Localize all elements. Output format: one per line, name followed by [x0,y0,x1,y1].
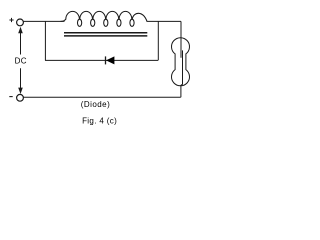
DC label [15,56,27,65]
svg-text:(Diode): (Diode) [81,100,110,109]
wire from coil to lamp branch [147,20,182,22]
inductor L1 coil loops [61,11,148,26]
lamp bottom electrode / wire to bottom [181,50,183,97]
svg-text:DC: DC [15,56,27,65]
terminal plus (+) [9,18,13,22]
lamp top electrode / wire from top [180,21,182,57]
wire bottom [24,96,181,98]
terminal circle bottom-left [17,94,24,101]
svg-text:Fig. 4 (c): Fig. 4 (c) [82,116,117,125]
wire bottom of diode loop [45,59,158,61]
iron core (double line) [64,32,147,34]
DC source arrow up [18,27,23,55]
wire right branch of diode loop [157,21,159,60]
lamp envelope (discharge tube) [172,38,190,86]
DC source arrow down [18,68,23,94]
wire left branch of diode loop [44,21,46,60]
wire top from + terminal to coil [23,20,64,22]
terminal circle top-left [17,19,24,26]
diode D1 (freewheeling, pointing left) [106,56,115,64]
terminal minus (-) [9,96,12,98]
